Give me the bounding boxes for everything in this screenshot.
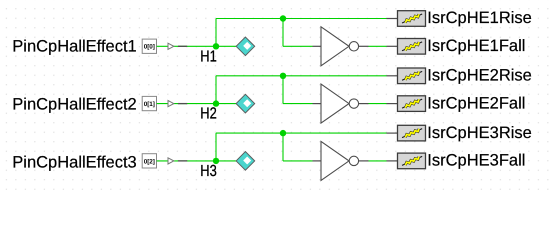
- svg-text:H3: H3: [200, 163, 217, 180]
- svg-text:0[1]: 0[1]: [144, 101, 155, 108]
- svg-text:PinCpHallEffect2: PinCpHallEffect2: [12, 95, 136, 113]
- svg-text:IsrCpHE2Rise: IsrCpHE2Rise: [427, 67, 532, 85]
- svg-text:PinCpHallEffect3: PinCpHallEffect3: [12, 154, 136, 172]
- svg-text:0[0]: 0[0]: [144, 44, 155, 51]
- svg-text:IsrCpHE3Fall: IsrCpHE3Fall: [427, 152, 525, 170]
- svg-text:IsrCpHE3Rise: IsrCpHE3Rise: [427, 124, 532, 142]
- svg-text:IsrCpHE1Rise: IsrCpHE1Rise: [427, 9, 532, 27]
- svg-text:H1: H1: [200, 48, 217, 65]
- svg-text:0[2]: 0[2]: [144, 158, 155, 165]
- svg-text:IsrCpHE2Fall: IsrCpHE2Fall: [427, 94, 525, 112]
- svg-text:H2: H2: [200, 106, 217, 123]
- svg-text:PinCpHallEffect1: PinCpHallEffect1: [12, 38, 136, 56]
- svg-text:IsrCpHE1Fall: IsrCpHE1Fall: [427, 37, 525, 55]
